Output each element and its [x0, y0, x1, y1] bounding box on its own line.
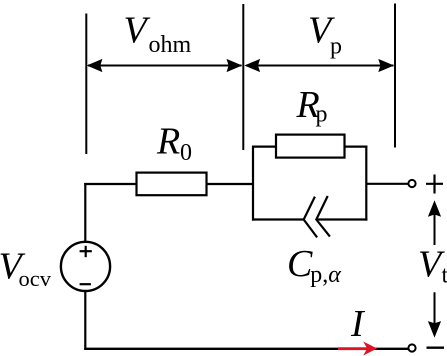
resistor R0: [137, 173, 207, 196]
resistor Rp: [276, 135, 345, 158]
svg-text:p: p: [330, 33, 342, 59]
voltage source V_ocv: [61, 242, 110, 291]
label V_ohm: [124, 10, 192, 59]
svg-text:0: 0: [180, 140, 192, 166]
V_p dimension arrow: [244, 59, 394, 72]
wire: bottom branch right segment: [316, 218, 367, 220]
svg-text:V: V: [124, 10, 151, 52]
wire: bottom branch left segment: [252, 218, 304, 220]
wire: parallel network left bar: [252, 146, 254, 221]
dimension extension line left (node between Vocv and R0): [85, 14, 87, 155]
label - at terminal: [427, 347, 445, 349]
wire: source bottom to return wire: [84, 290, 86, 350]
terminal - (open circle): [408, 344, 415, 351]
dimension extension line right (terminal node): [394, 4, 396, 148]
svg-text:t: t: [442, 262, 447, 288]
terminal + (open circle): [408, 180, 415, 187]
svg-text:ohm: ohm: [149, 32, 192, 58]
wire: bottom return wire: [84, 348, 408, 350]
svg-text:I: I: [350, 303, 366, 345]
V_t arrow down: [428, 292, 441, 337]
dimension extension line middle (node between R0 and RC): [242, 4, 244, 150]
wire: to positive terminal: [366, 183, 408, 185]
label V_p: [308, 10, 342, 60]
svg-text:C: C: [287, 243, 313, 285]
svg-text:ocv: ocv: [19, 266, 52, 291]
wire: top branch right segment: [345, 146, 368, 148]
svg-text:R: R: [156, 121, 180, 163]
capacitor CPE Cp,alpha (two chevrons): [304, 196, 330, 237]
wire: node A down from main wire to source top: [84, 183, 86, 243]
current arrow I (red): [338, 342, 377, 356]
label R_p: [296, 84, 328, 128]
wire: R0 to parallel network: [207, 183, 255, 185]
label + at terminal: [426, 175, 443, 194]
label R_0: [156, 121, 192, 167]
wire: main top wire from node A to R0: [84, 183, 137, 185]
label V_t: [418, 244, 447, 289]
V_ohm dimension arrow: [87, 59, 243, 72]
wire: parallel network right bar: [365, 146, 367, 221]
label V_ocv: [0, 246, 52, 291]
V_t arrow up: [428, 200, 441, 245]
label C_p,alpha: [287, 243, 341, 288]
wire: top branch left segment: [252, 146, 277, 148]
svg-text:p,α: p,α: [310, 262, 341, 288]
svg-text:p: p: [316, 102, 328, 128]
